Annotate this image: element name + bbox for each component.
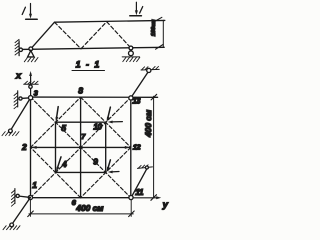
- node 11 anchor circle: [145, 166, 148, 169]
- node 3 top anchor ground bar: [24, 83, 39, 85]
- truss right roller circle: [129, 51, 134, 56]
- inner square bottom edge: [56, 171, 106, 173]
- bottom extension line left: [29, 200, 31, 216]
- node 3 top anchor hatching: [25, 81, 39, 84]
- dimension tick bottom: [156, 44, 164, 49]
- truss diagonal d2 (dashed): [81, 22, 107, 49]
- node 3 horizontal link: [21, 97, 31, 100]
- svg-text:1 - 1: 1 - 1: [76, 60, 101, 70]
- x axis arrow at node 3: [30, 74, 32, 97]
- node 11 circle: [129, 195, 133, 199]
- plate mid horizontal line: [31, 146, 131, 148]
- plate outline left edge: [30, 97, 32, 198]
- load arrow at node 5: [56, 107, 58, 119]
- svg-text:4: 4: [61, 160, 67, 169]
- node 3 inclined link anchor hatching: [2, 132, 19, 136]
- horizontal arrow into node 10: [112, 121, 123, 123]
- svg-text:11: 11: [135, 187, 144, 197]
- node 13 circle: [129, 96, 133, 100]
- truss right support ground hatching: [123, 57, 140, 61]
- truss right node circle: [129, 46, 133, 50]
- inner square top edge: [56, 121, 106, 123]
- horizontal arrow into node 9: [112, 171, 120, 173]
- node 11 anchor ground: [138, 167, 153, 169]
- section mark left: label 1: [22, 7, 25, 14]
- node 1 inclined link anchor hatching: [3, 226, 20, 230]
- load arrow at node 10: [108, 107, 111, 119]
- node 3 circle: [29, 96, 33, 100]
- node 3 left wall hatching: [14, 93, 18, 109]
- truss left support wall hatching: [15, 39, 19, 55]
- svg-text:2: 2: [21, 142, 27, 152]
- section mark left: arrow: [30, 4, 32, 16]
- section mark right: bar: [130, 15, 142, 17]
- truss left node circle: [29, 47, 33, 51]
- section mark left: bar: [26, 18, 38, 20]
- svg-text:x: x: [15, 70, 22, 81]
- svg-text:400 см: 400 см: [75, 203, 104, 213]
- node 1 circle: [28, 195, 32, 199]
- truss diagonal d3 (dashed): [107, 22, 131, 48]
- svg-text:13: 13: [132, 97, 141, 106]
- section mark right: arrow: [135, 2, 137, 12]
- truss diagonal d1 (dashed): [55, 22, 82, 49]
- node 13 anchor ground: [141, 68, 159, 71]
- truss top chord: [55, 20, 165, 22]
- node 3 top anchor pin circle: [29, 85, 32, 88]
- node 3 left wall: [17, 91, 19, 107]
- node 1 left wall pin circle: [16, 194, 19, 197]
- node 1 left wall: [14, 189, 16, 204]
- node 1 inclined link anchor circle: [10, 223, 14, 227]
- truss bottom chord: [21, 47, 165, 49]
- main diagonal 3-11 (dashed): [31, 97, 131, 198]
- truss left support pin circle: [19, 48, 22, 51]
- node 1 left wall hatching: [11, 190, 15, 206]
- inner square left edge: [55, 122, 57, 172]
- node 3 inclined link anchor circle: [9, 129, 13, 133]
- load arrow at node 4: [57, 157, 61, 169]
- truss height dimension line: [162, 20, 164, 47]
- section mark right: label 1: [140, 7, 143, 14]
- right dimension tick top: [151, 94, 157, 100]
- truss left support ground hatching: [24, 58, 38, 62]
- truss left end post: [31, 22, 55, 49]
- svg-text:100см: 100см: [151, 19, 157, 36]
- plate mid vertical line: [80, 97, 82, 198]
- svg-text:8: 8: [78, 85, 83, 95]
- node 1 inclined support link: [12, 198, 31, 225]
- truss left support triangle: [28, 51, 34, 57]
- node 12 arrowhead on mid line: [125, 146, 130, 149]
- node 13 anchor circle: [147, 68, 151, 72]
- dimension tick top: [156, 17, 162, 21]
- diamond edge 12-6 (dashed): [81, 147, 131, 197]
- bottom dimension tick right: [129, 211, 135, 217]
- plate outline bottom edge: [31, 197, 131, 199]
- right dimension line 400cm: [153, 96, 155, 197]
- node 2 arrowhead on mid line: [32, 146, 37, 149]
- section label underline: [72, 70, 105, 72]
- svg-text:10: 10: [93, 122, 102, 131]
- load arrow at node 9: [108, 160, 111, 169]
- inner square right edge: [105, 122, 107, 172]
- node 1 horizontal link: [18, 196, 30, 197]
- y axis arrow at node 11: [133, 197, 158, 199]
- diamond edge 6-2 (dashed): [31, 147, 81, 197]
- svg-text:1: 1: [32, 180, 37, 190]
- bottom dimension line 400cm: [29, 213, 133, 215]
- node 11 inclined support link: [131, 168, 147, 197]
- svg-text:9: 9: [93, 158, 98, 167]
- node 11 anchor hatching: [138, 165, 148, 168]
- diamond edge 2-8 (dashed): [31, 97, 81, 147]
- truss left support wall: [18, 41, 20, 56]
- right dimension tick bottom: [151, 195, 157, 201]
- plate outline right edge: [130, 97, 132, 197]
- plate outline top edge (with extension to dimension line): [31, 96, 158, 98]
- diamond edge 8-12 (dashed): [81, 97, 131, 147]
- svg-text:5: 5: [61, 123, 66, 133]
- node 13 anchor hatching: [142, 66, 159, 69]
- main diagonal 1-13 (dashed): [31, 97, 131, 197]
- svg-text:400 см: 400 см: [143, 109, 153, 138]
- node 3 inclined support link: [10, 98, 30, 131]
- bottom extension line right: [130, 200, 132, 216]
- node 13 inclined support link: [131, 71, 149, 98]
- node 3 left wall pin circle: [19, 97, 22, 100]
- bottom dimension tick left: [28, 211, 34, 217]
- svg-text:y: y: [162, 199, 169, 210]
- truss right support ground: [122, 56, 139, 58]
